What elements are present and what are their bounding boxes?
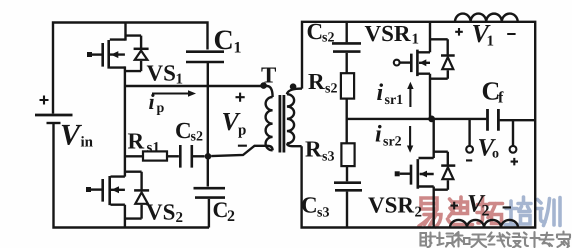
svg-text:p: p xyxy=(238,123,246,139)
svg-text:VSR: VSR xyxy=(365,21,411,46)
svg-text:VS: VS xyxy=(147,61,176,86)
svg-text:s2: s2 xyxy=(325,82,337,97)
svg-text:sr1: sr1 xyxy=(385,93,404,108)
svg-text:2: 2 xyxy=(415,205,423,221)
svg-text:p: p xyxy=(157,101,165,116)
svg-text:i: i xyxy=(149,89,156,114)
svg-text:o: o xyxy=(492,147,499,162)
svg-text:C: C xyxy=(175,118,192,143)
svg-text:1: 1 xyxy=(176,72,184,88)
svg-text:VSR: VSR xyxy=(368,193,414,218)
svg-text:f: f xyxy=(498,90,504,107)
svg-text:C: C xyxy=(214,25,234,56)
svg-text:2: 2 xyxy=(482,203,490,220)
svg-text:C: C xyxy=(301,193,318,218)
svg-text:s3: s3 xyxy=(317,206,329,221)
svg-text:sr2: sr2 xyxy=(383,135,402,150)
svg-text:C: C xyxy=(213,197,229,222)
svg-text:s2: s2 xyxy=(191,130,203,145)
svg-text:s2: s2 xyxy=(322,31,334,46)
svg-text:s1: s1 xyxy=(147,140,160,156)
svg-text:2: 2 xyxy=(227,208,235,225)
svg-text:1: 1 xyxy=(234,40,242,57)
svg-text:i: i xyxy=(375,122,382,148)
svg-text:s3: s3 xyxy=(322,150,334,165)
svg-text:R: R xyxy=(305,137,322,162)
svg-text:in: in xyxy=(81,135,94,151)
svg-text:1: 1 xyxy=(487,34,495,50)
svg-text:VS: VS xyxy=(146,200,175,225)
svg-text:T: T xyxy=(261,63,276,88)
svg-text:R: R xyxy=(128,129,145,154)
svg-text:R: R xyxy=(308,69,325,94)
svg-text:2: 2 xyxy=(176,210,184,226)
svg-text:C: C xyxy=(307,19,324,44)
svg-text:i: i xyxy=(377,80,384,106)
svg-text:1: 1 xyxy=(412,32,420,48)
